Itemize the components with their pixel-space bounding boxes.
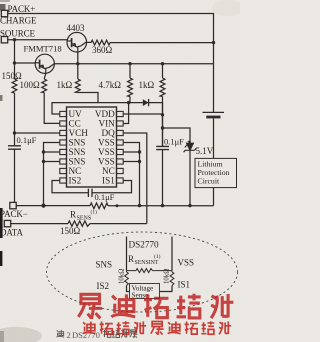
resistor R6 1k (160, 78, 165, 97)
node VSS-rail junction (138, 204, 141, 207)
svg-text:0.1μF: 0.1μF (17, 135, 37, 145)
lithium protection box (195, 158, 237, 187)
wire zener to ground rail (189, 151, 191, 206)
svg-text:VDD: VDD (95, 109, 115, 119)
svg-text:1kΩ: 1kΩ (139, 80, 155, 90)
wire SNS p5 (44, 151, 60, 153)
wire VDD connect (123, 113, 162, 115)
svg-text:SNS: SNS (69, 138, 86, 148)
node VIN junction (127, 101, 130, 104)
wire SNS p6 (44, 161, 60, 163)
svg-text:CHARGE: CHARGE (0, 16, 37, 26)
capacitor C1 0.1uF (8, 146, 21, 149)
wire 360ohm to right bus (110, 42, 214, 44)
resistor R7 Rsens (90, 203, 108, 209)
wire vdd vertical (162, 103, 164, 146)
svg-text:(1): (1) (91, 209, 98, 216)
resistor R4 1k (75, 79, 80, 93)
svg-text:4.7kΩ: 4.7kΩ (99, 80, 122, 90)
op-amp U1 DS2770 IC body and pins (67, 107, 117, 187)
wire 4.7k top (129, 64, 131, 78)
svg-text:SNS: SNS (96, 260, 113, 270)
node VSS p5 junction (138, 150, 141, 153)
capacitor C3 0.1uF (88, 189, 92, 197)
svg-text:R: R (70, 210, 76, 220)
battery B1 plate short (206, 116, 220, 119)
node SNS-rail junction (41, 204, 45, 208)
svg-text:VSS: VSS (98, 147, 115, 157)
wire VSS bus (123, 143, 139, 206)
svg-text:R: R (128, 254, 134, 264)
wire VCH (15, 132, 60, 134)
wire Q2 to R3 (44, 73, 46, 79)
wire PACK+ top rail (8, 14, 214, 113)
watermark big red text (78, 294, 233, 319)
svg-text:DATA: DATA (0, 228, 23, 238)
wire DATA right (90, 223, 147, 225)
node c2-rail junction (161, 204, 164, 207)
svg-text:PACK+: PACK+ (8, 4, 36, 14)
transistor Q1 4403 (67, 32, 87, 52)
wire IS2 loop (52, 181, 88, 193)
wire rail left (16, 205, 90, 207)
wire UV loop (52, 103, 143, 114)
diode D1 (143, 99, 149, 106)
resistor R11 10k right (170, 271, 174, 286)
wire 10k right to box (160, 286, 173, 292)
wire C3 to IS1 (92, 181, 132, 193)
svg-text:0.1μF: 0.1μF (95, 192, 115, 202)
terminal DATA (4, 220, 10, 226)
zener D2 5.1V (184, 141, 197, 152)
wire R4 to UV wire (78, 93, 98, 103)
svg-text:100Ω: 100Ω (20, 80, 41, 90)
node zener branch junction (161, 126, 164, 129)
svg-text:1kΩ: 1kΩ (57, 80, 73, 90)
svg-text:VIN: VIN (98, 119, 115, 129)
paper background (0, 0, 240, 342)
resistor R1 360ohm (86, 40, 110, 45)
capacitor C2 0.1uF (156, 146, 169, 149)
svg-text:2: 2 (67, 330, 71, 340)
terminal SOURCE (1, 37, 7, 43)
svg-text:NC: NC (102, 166, 115, 176)
resistor R3 100ohm (42, 79, 47, 93)
wire R3 to CC pin (44, 93, 60, 124)
wire left vertical mid (14, 93, 16, 146)
svg-text:SENSINT: SENSINT (135, 260, 159, 266)
wire SOURCE to Q1 base (8, 39, 67, 41)
watermark small red text (83, 321, 231, 335)
wire C collector rail (54, 63, 213, 65)
node VCH tap (13, 131, 16, 134)
die boundary ellipse (47, 232, 238, 312)
wire Q1 collector down (77, 52, 79, 79)
wire bus below battery (213, 118, 215, 158)
svg-text:360Ω: 360Ω (92, 45, 113, 55)
node Q1-wireC junction (76, 62, 79, 65)
svg-text:SNS: SNS (69, 147, 86, 157)
svg-text:(1): (1) (154, 253, 161, 260)
caption figure 2 (56, 330, 137, 340)
wire left vertical lower (14, 149, 16, 202)
node Q2 base tap (13, 61, 16, 64)
svg-text:10kΩ: 10kΩ (119, 269, 126, 284)
wire vdd vertical lower (162, 150, 164, 206)
wire 10k left to box (127, 286, 130, 292)
svg-text:SNS: SNS (69, 157, 86, 167)
wire VIN riser (123, 103, 128, 124)
wire 1k bottom vertical (162, 97, 164, 147)
node SOURCE junction (13, 38, 16, 41)
voltage sense box (130, 284, 160, 299)
node wireC-1k junction (161, 62, 164, 65)
svg-text:IS2: IS2 (69, 176, 82, 186)
scan artifact top left mark (0, 4, 6, 11)
resistor R5 4.7k (128, 78, 133, 97)
svg-text:IS1: IS1 (102, 176, 115, 186)
resistor R10 10k left (125, 271, 129, 286)
node VDD junction (161, 113, 164, 116)
svg-text:DQ: DQ (102, 128, 116, 138)
wire die SNS vertical (126, 237, 128, 271)
svg-text:PACK−: PACK− (0, 209, 28, 219)
svg-text:NC: NC (69, 166, 82, 176)
wire die VSS vertical (171, 237, 173, 271)
wire rail right (108, 205, 214, 207)
svg-text:FMMT718: FMMT718 (24, 44, 62, 54)
svg-text:150Ω: 150Ω (60, 226, 81, 236)
wire zener branch (163, 128, 191, 143)
node VSS p6 junction (138, 160, 141, 163)
node rail sense junction (116, 204, 119, 207)
svg-text:Circuit: Circuit (198, 177, 220, 186)
node SNS p6 junction (42, 160, 45, 163)
svg-text:10kΩ: 10kΩ (164, 269, 171, 284)
wire DQ vertical (123, 133, 147, 224)
node bus-360 junction (212, 41, 215, 44)
wire VSS p6 (123, 161, 139, 163)
terminal PACK+ (1, 10, 7, 16)
wire SNS bus (44, 143, 60, 206)
svg-text:5.1V: 5.1V (196, 146, 214, 156)
wire left vertical upper (14, 40, 16, 79)
node SNS p5 junction (42, 150, 45, 153)
resistor R8 150ohm (68, 221, 90, 226)
svg-text:VSS: VSS (98, 157, 115, 167)
scan artifact left edge bars (0, 208, 3, 238)
node wireC-4.7k junction (128, 62, 131, 65)
battery B1 plate long (203, 111, 225, 113)
svg-text:VSS: VSS (178, 258, 195, 268)
wire DATA left (11, 223, 68, 225)
wire VSS p5 (123, 151, 139, 153)
node zener-rail junction (188, 204, 191, 207)
wire Q2 base from left rail (15, 62, 36, 64)
svg-text:UV: UV (69, 109, 83, 119)
wire 4.7k bottom (129, 97, 130, 103)
svg-text:SENS: SENS (77, 216, 92, 222)
resistor R9 Rsensint (127, 269, 173, 273)
resistor R2 150ohm (12, 79, 17, 93)
svg-text:IS2: IS2 (97, 281, 110, 291)
terminal PACK- (10, 202, 16, 208)
svg-text:0.1μF: 0.1μF (164, 137, 184, 147)
svg-text:VCH: VCH (69, 128, 89, 138)
svg-text:VSS: VSS (98, 138, 115, 148)
svg-text:IS1: IS1 (178, 280, 191, 290)
svg-text:DS2770: DS2770 (129, 240, 160, 250)
scan artifact bottom left smudge (0, 327, 42, 342)
svg-text:CC: CC (69, 119, 81, 129)
transistor Q2 FMMT718 (35, 54, 54, 73)
svg-text:4403: 4403 (67, 23, 86, 33)
wire 1k top (162, 64, 164, 78)
wire box to rail (213, 188, 215, 206)
